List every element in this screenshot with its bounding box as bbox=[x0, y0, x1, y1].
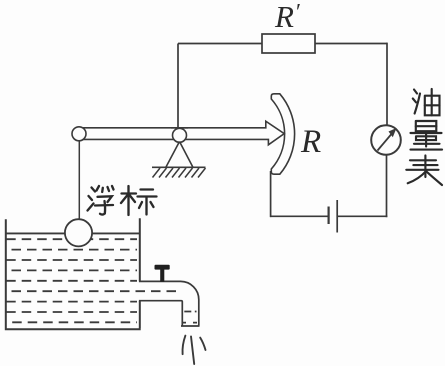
liquid surface line bbox=[5, 232, 140, 234]
wire: top horizontal right segment bbox=[315, 43, 387, 45]
meter needle bbox=[378, 131, 395, 151]
battery (short plate) bbox=[328, 207, 330, 225]
liquid dashes bbox=[6, 239, 181, 322]
ground line under fulcrum bbox=[152, 166, 206, 168]
liquid dashes inside spout bbox=[183, 312, 197, 323]
battery (long plate) bbox=[336, 200, 338, 233]
wire: right vertical from meter down to bottom wire bbox=[386, 155, 388, 217]
faucet pipe bbox=[139, 281, 199, 325]
pivot circle bbox=[173, 128, 187, 142]
wire: left vertical from top wire down to lever pivot bbox=[177, 44, 179, 129]
string from lever to float bbox=[78, 141, 80, 220]
resistor R' bbox=[262, 34, 315, 53]
label 浮标 (float) bbox=[88, 186, 157, 215]
fulcrum triangle bbox=[166, 142, 193, 168]
water splash lines bbox=[183, 336, 206, 364]
wire: bottom horizontal right segment (battery to right corner) bbox=[337, 215, 387, 217]
wire: top horizontal left segment bbox=[178, 43, 262, 45]
ground hatching bbox=[153, 168, 206, 178]
svg-text:R: R bbox=[274, 0, 294, 34]
faucet mouth edge bbox=[181, 325, 200, 327]
svg-text:′: ′ bbox=[296, 0, 301, 25]
lever arm with wiper arrow bbox=[79, 121, 284, 145]
label 油量表 (oil gauge, vertical) bbox=[406, 89, 442, 185]
tank walls bbox=[5, 218, 141, 329]
float ball bbox=[65, 219, 92, 246]
wire: left vertical from rheostat bottom down to bottom wire bbox=[270, 171, 272, 217]
svg-text:R: R bbox=[300, 124, 321, 160]
valve handle (T) bbox=[155, 265, 170, 270]
rheostat R (curved resistive strip) bbox=[271, 94, 294, 174]
wire: lever top line over pivot bbox=[171, 127, 188, 129]
wire: bottom horizontal left segment (left corner to battery) bbox=[270, 215, 329, 217]
meter U1 (oil gauge) bbox=[371, 125, 401, 155]
wire: right vertical from top wire down to meter bbox=[386, 43, 388, 125]
left end ball of lever bbox=[72, 127, 86, 141]
